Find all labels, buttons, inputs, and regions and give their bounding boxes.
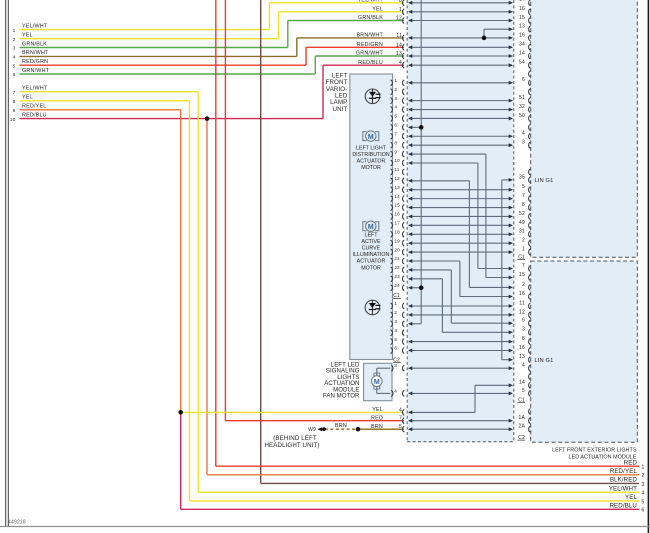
svg-text:5: 5 [13,63,16,69]
wire YEL vertical drop (to bottom wire 5) [189,101,191,501]
YEL fan row label pin 4 [372,407,402,413]
svg-text:7: 7 [399,416,402,422]
bottom wire 3 BLK/RED to right edge [261,477,645,488]
svg-text:YEL/WHT: YEL/WHT [609,486,637,493]
svg-text:4: 4 [399,60,402,66]
svg-text:2: 2 [642,473,645,479]
motor M2 left active curve illumination actuator [363,221,379,231]
svg-text:BRN/WHT: BRN/WHT [22,50,49,56]
wire row y=243.18 lamp pin 19 to right pin 2 [408,238,525,246]
svg-text:9: 9 [394,149,397,154]
svg-text:13: 13 [394,185,400,190]
svg-text:7: 7 [13,90,16,96]
svg-text:6: 6 [13,72,16,78]
bottom wire 2 RED/YEL to right edge [207,468,645,479]
wire 3 GRN/BLK from left edge [13,21,404,52]
svg-text:8: 8 [394,140,397,145]
svg-text:3: 3 [522,140,525,146]
wire row y=56.0 GRN/WHT to right pin 14 [408,50,525,57]
svg-text:3: 3 [394,319,397,324]
svg-text:6: 6 [642,508,645,514]
svg-text:YEL: YEL [625,494,637,501]
svg-text:4: 4 [522,363,525,369]
wire 7 YEL/WHT from left edge [13,86,199,96]
svg-text:2: 2 [522,238,525,244]
svg-text:3: 3 [394,363,397,368]
wire row y=2.8 YEL/WHT to right pin 14 [408,0,525,5]
right module box B (bottom) [531,261,638,442]
svg-text:5: 5 [394,114,397,119]
svg-text:4: 4 [522,131,525,137]
svg-text:MOTOR: MOTOR [361,165,381,171]
frame bottom border [0,520,650,527]
svg-text:RED: RED [371,415,383,421]
svg-text:1: 1 [394,301,397,306]
svg-text:GRN/WHT: GRN/WHT [22,68,50,74]
wire 10 RED/BLU from left edge [10,65,404,123]
wire row y=145.17 lamp pin 8 to right pin 3 [408,140,525,148]
svg-text:12: 12 [396,16,402,22]
svg-text:2: 2 [394,87,397,92]
svg-text:50: 50 [519,113,525,119]
svg-text:4: 4 [394,388,397,393]
wire row y=82.8 lamp pin 1 to right pin 6 [408,77,525,85]
svg-text:8: 8 [13,99,16,105]
splice: RED/YEL to YEL / RED/BLU junction [178,410,404,509]
svg-text:23: 23 [394,274,400,279]
svg-text:7: 7 [522,193,525,199]
lamp unit pins 1-24 [391,78,401,291]
right connector designator C2 [518,435,526,441]
svg-text:21: 21 [394,256,400,261]
svg-text:LIN G1: LIN G1 [535,178,554,184]
svg-text:7: 7 [522,263,525,269]
frame right border [647,0,649,533]
svg-text:3: 3 [13,46,16,52]
rail (net from top of page) x=421.2 [408,0,421,326]
svg-text:9: 9 [13,108,16,114]
svg-text:3: 3 [394,96,397,101]
svg-text:BRN: BRN [371,424,383,430]
fan motor pins 3 and 4 [391,363,397,396]
svg-text:5: 5 [394,337,397,342]
wire row y=278.82 lamp pin 23 drops at x=442.4 to right pin 3 (y=332.3) [408,277,525,334]
wire 9 RED/YEL from left edge [13,104,181,114]
wire row y=420.7 RED row to right pin 1A [408,415,525,423]
wire row y=368.2 fan motor pin 3 to right pin 4 [408,363,525,371]
svg-text:51: 51 [519,95,525,101]
wire row y=20.5 GRN/BLK to right pin 15 [408,15,525,23]
RED fan supply row pin 7 [225,415,404,421]
splice on wire 10 (branch to bottom wire 2 RED/YEL) [205,116,210,475]
bottom wire 1 RED to right edge [216,459,645,470]
svg-text:5: 5 [642,499,645,505]
svg-text:8: 8 [399,0,402,4]
svg-text:RED/BLU: RED/BLU [609,503,637,510]
wire row y=65.2 RED/BLU to right pin 54 [408,60,525,68]
label YEL pin 1 at left connector [372,7,402,13]
svg-text:6: 6 [394,123,397,128]
wire 2 YEL from left edge [13,12,404,43]
wire row y=261.0 lamp pin 21 drops at x=459.9 to right pin 16 (y=296.5) [408,259,525,298]
svg-text:GRN/BLK: GRN/BLK [22,41,47,47]
svg-text:15: 15 [519,15,525,21]
svg-text:13: 13 [396,51,402,57]
svg-text:2: 2 [394,310,397,315]
svg-text:49: 49 [519,220,525,226]
wire row y=269.91 lamp pin 22 drops at x=451.3 to right pin 6 (y=323.2) [408,268,525,325]
label GRN/BLK pin 12 at left connector [358,15,402,21]
svg-text:4: 4 [394,105,397,110]
svg-text:1A: 1A [518,415,525,421]
LIN G1 bus vertical and right segments [502,174,554,363]
svg-text:GRN/BLK: GRN/BLK [358,15,383,21]
svg-text:1: 1 [399,7,402,13]
note (BEHIND LEFT HEADLIGHT UNIT) [264,435,319,449]
wire row y=341.6 lamp pin 5 (C2 group) to right pin 8 [408,336,525,344]
right module box A (top) LEFT FRONT EXTERIOR LIGHTS LED ACTUATION MODULE [531,0,638,257]
svg-text:HEADLIGHT UNIT): HEADLIGHT UNIT) [264,442,319,449]
svg-text:6: 6 [394,346,397,351]
wire 6 GRN/WHT from left edge [13,56,404,78]
svg-text:M: M [368,224,374,231]
left connector sockets [403,0,405,432]
lamp pin 24 stub to rail [408,285,424,290]
wire row y=189.72 lamp pin 13 to right pin 5 [408,184,525,192]
right connector designator C1 (top) [518,254,526,260]
wire row y=314.9 lamp pin 2 (C2 group) to right pin 12 [408,309,525,317]
svg-text:ACTIVE: ACTIVE [361,239,381,245]
wire row y=180.81 lamp pin 12 drops at x=469.4 to right pin 2 (y=287.4) [408,179,525,289]
svg-text:22: 22 [394,265,400,270]
svg-text:4: 4 [642,491,645,497]
svg-text:16: 16 [519,32,525,38]
bottom wire 5 YEL to right edge [190,494,645,505]
svg-text:3: 3 [522,327,525,333]
wire row y=154.08 lamp pin 9 drops at x=485.9 to right pin 15 (y=277.5) [408,152,525,279]
svg-text:15: 15 [394,203,400,208]
svg-text:13: 13 [519,354,525,360]
label BRN/WHT pin 11 at left connector [356,33,402,39]
right connector designator C1 (bottom) [518,398,526,404]
svg-text:M: M [374,379,380,386]
svg-text:YEL/WHT: YEL/WHT [358,0,384,4]
wire row y=100.62 lamp pin 3 to right pin 51 [408,95,525,103]
svg-text:16: 16 [394,212,400,217]
svg-text:RED/YEL: RED/YEL [610,468,638,475]
connector boundary dashed line (right of strip) [513,0,515,442]
motor M1 left light distribution actuator [363,131,379,141]
svg-text:52: 52 [519,211,525,217]
lamp unit box LEFT FRONT VARIO-LED LAMP UNIT [350,74,393,360]
wire 5 RED/GRN from left edge [13,47,404,69]
svg-text:13: 13 [519,24,525,30]
RED vertical feeder (to bottom wire 1) [215,0,217,466]
svg-text:2A: 2A [518,424,525,430]
svg-text:LEFT FRONT EXTERIOR LIGHTS: LEFT FRONT EXTERIOR LIGHTS [552,447,637,453]
label LEFT LIGHT DISTRIBUTION ACTUATOR MOTOR [352,145,390,171]
wire row y=109.53 lamp pin 4 to right pin 32 [408,104,525,112]
svg-text:ILLUMINATION: ILLUMINATION [353,252,390,258]
svg-text:32: 32 [519,104,525,110]
svg-text:RED/GRN: RED/GRN [22,59,48,65]
svg-text:BLK/RED: BLK/RED [610,477,638,484]
wire row y=252.09 lamp pin 20 to right pin 1 [408,246,525,254]
svg-text:14: 14 [519,0,525,3]
svg-text:7: 7 [394,131,397,136]
svg-text:14: 14 [394,194,400,199]
svg-text:BRN: BRN [335,423,347,429]
svg-text:1: 1 [394,78,397,83]
svg-text:LEFT LIGHT: LEFT LIGHT [356,145,387,151]
wire row y=393.4 fan motor pin 4 to right pin 5 [408,388,525,396]
LED symbol (signaling) bottom [365,300,380,315]
wire row BRN/WHT with branch to right pin 13 [408,24,525,41]
wire RED/YEL vertical drop to splice [180,110,182,413]
svg-text:UNIT: UNIT [333,106,348,113]
frame left double border [6,0,9,527]
svg-text:W9: W9 [308,427,316,433]
svg-text:YEL: YEL [372,7,383,13]
wire YEL/WHT vertical drop (to bottom wire 4) [197,92,199,493]
svg-text:10: 10 [394,158,400,163]
svg-text:LEFT: LEFT [365,232,379,238]
svg-text:2: 2 [13,37,16,43]
svg-text:16: 16 [519,6,525,12]
fan motor box LEFT LED SIGNALING LIGHTS ACTUATION MODULE FAN MOTOR [364,363,392,400]
svg-text:2: 2 [522,282,525,288]
svg-text:24: 24 [394,283,400,288]
svg-text:YEL: YEL [372,407,383,413]
svg-text:MOTOR: MOTOR [361,265,381,271]
svg-text:CURVE: CURVE [362,246,381,252]
bottom wire 6 RED/BLU to right edge [181,503,645,514]
svg-text:14: 14 [519,50,525,56]
label YEL/WHT pin 8 at left connector [358,0,402,4]
svg-text:YEL/WHT: YEL/WHT [22,86,48,92]
svg-text:16: 16 [519,291,525,297]
lamp unit pins 1-6 (C2 group) [391,301,398,353]
lamp pin 6 stub to rail [408,125,424,130]
label LEFT FRONT VARIO-LED LAMP UNIT [326,72,348,113]
svg-text:5: 5 [522,388,525,394]
svg-text:RED/BLU: RED/BLU [22,112,47,118]
BLK/RED vertical feeder (to bottom wire 3) [260,0,262,483]
lamp unit connector designator C2 [393,357,401,363]
wire 8 YEL from left edge [13,95,190,105]
connector boundary dashed line (left of strip) [406,0,408,442]
bottom wire 4 YEL/WHT to right edge [198,486,644,497]
svg-text:RED/BLU: RED/BLU [358,60,383,66]
label RED/BLU pin 4 at left connector [358,60,402,66]
wire row y=47.3 RED/GRN to right pin 34 [408,42,525,49]
svg-text:14: 14 [396,42,402,48]
svg-text:20: 20 [394,247,400,252]
svg-text:8: 8 [522,336,525,342]
svg-text:6: 6 [522,318,525,324]
BRN row with W9 splice [308,423,404,433]
svg-text:1: 1 [13,28,16,34]
svg-text:18: 18 [394,229,400,234]
svg-text:5: 5 [522,184,525,190]
right connector sockets [529,0,531,432]
svg-text:4: 4 [399,407,402,413]
svg-text:1: 1 [642,465,645,471]
label LEFT FRONT EXTERIOR LIGHTS LED ACTUATION MODULE [552,447,637,460]
wire row y=429.2 BRN row to right pin 2A [408,424,525,432]
svg-text:4: 4 [13,55,16,61]
wire row y=225.36 lamp pin 17 to right pin 49 [408,220,525,228]
svg-text:6: 6 [522,77,525,83]
svg-text:449218: 449218 [8,520,26,526]
wire row y=234.27 lamp pin 18 to right pin 31 [408,229,525,237]
svg-text:ACTUATOR: ACTUATOR [357,259,386,265]
svg-text:54: 54 [519,60,525,66]
svg-text:4: 4 [394,328,397,333]
wire row y=136.26 lamp pin 7 to right pin 4 [408,131,525,139]
svg-text:M: M [368,134,374,141]
wire row y=162.99 lamp pin 10 drops at x=477.9 to right pin 7 (y=268.5) [408,161,525,270]
svg-text:YEL: YEL [22,95,33,101]
svg-text:10: 10 [10,117,16,123]
svg-text:RED/YEL: RED/YEL [22,104,46,110]
svg-text:3: 3 [642,482,645,488]
svg-text:14: 14 [519,380,525,386]
svg-text:FAN MOTOR: FAN MOTOR [323,393,360,400]
svg-text:17: 17 [394,221,400,226]
svg-text:LED ACTUATION MODULE: LED ACTUATION MODULE [569,455,637,461]
svg-text:34: 34 [519,42,525,48]
wire row y=11.8 YEL to right pin 16 [408,6,525,14]
svg-text:BRN/WHT: BRN/WHT [356,33,383,39]
wire row y=207.54 lamp pin 15 to right pin 8 [408,202,525,210]
svg-text:RED/GRN: RED/GRN [357,42,383,48]
svg-text:19: 19 [394,238,400,243]
svg-text:12: 12 [394,176,400,181]
svg-text:11: 11 [394,167,399,172]
fan motor symbol [372,368,391,393]
svg-text:YEL: YEL [22,33,33,39]
svg-text:15: 15 [519,272,525,278]
wire 4 BRN/WHT from left edge [13,38,404,61]
harness strip background [408,0,513,442]
label LEFT ACTIVE CURVE ILLUMINATION ACTUATOR MOTOR [353,232,390,271]
svg-text:5: 5 [399,424,402,430]
svg-text:LIN G1: LIN G1 [535,358,554,364]
svg-text:31: 31 [519,229,525,235]
LED symbol (vario LED lamp) top [365,89,380,104]
wire row y=216.45 lamp pin 16 to right pin 52 [408,211,525,219]
YEL row into strip rises to right pin 14 [408,380,525,415]
RED vertical feeder (to fan supply RED row) [224,0,226,421]
svg-text:GRN/WHT: GRN/WHT [356,51,384,57]
label RED/GRN pin 14 at left connector [357,42,402,48]
svg-text:35: 35 [519,174,525,180]
label LEFT LED SIGNALING LIGHTS ACTUATION MODULE FAN MOTOR [323,361,360,399]
svg-text:11: 11 [519,300,525,306]
svg-text:16: 16 [519,345,525,351]
svg-text:11: 11 [396,33,402,39]
wire row y=118.44 lamp pin 5 to right pin 50 [408,113,525,121]
wire row y=350.5 lamp pin 6 (C2 group) to right pin 16 [408,345,525,353]
wire row y=306.0 lamp pin 1 (C2 group) to right pin 11 [408,300,525,308]
svg-text:1: 1 [522,246,525,252]
svg-text:ACTUATOR: ACTUATOR [357,159,386,165]
strip bottom dashed line [407,441,514,443]
wire row y=198.63 lamp pin 14 to right pin 7 [408,193,525,201]
wire 1 YEL/WHT from left edge [13,3,404,34]
lamp unit connector designator C1 [393,293,401,299]
svg-text:DISTRIBUTION: DISTRIBUTION [352,152,390,158]
label GRN/WHT pin 13 at left connector [356,51,402,57]
svg-text:YEL/WHT: YEL/WHT [22,23,48,29]
svg-text:12: 12 [519,309,525,315]
svg-text:(BEHIND LEFT: (BEHIND LEFT [273,435,317,442]
svg-text:8: 8 [522,202,525,208]
